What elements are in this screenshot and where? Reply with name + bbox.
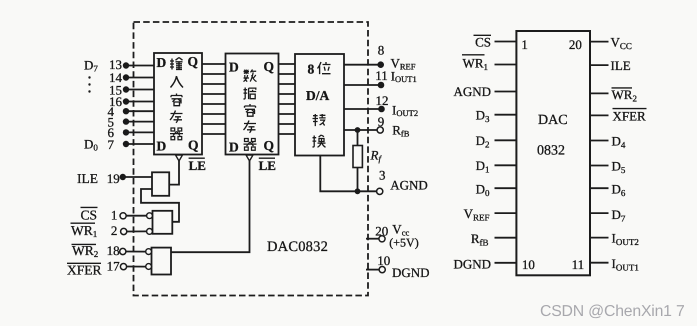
svg-text:D2: D2	[476, 133, 490, 150]
VREF node dot	[377, 61, 384, 68]
svg-text:RfB: RfB	[392, 122, 410, 138]
left pin labels	[453, 35, 491, 272]
left pin stubs	[495, 42, 517, 263]
svg-text:ILE: ILE	[611, 58, 631, 73]
input wires D7..D0 into U1	[126, 66, 154, 145]
svg-text:20: 20	[569, 37, 582, 52]
U1 pin labels D/Q	[157, 54, 199, 154]
WR2 wire	[126, 251, 146, 253]
svg-text:D/A: D/A	[306, 88, 330, 103]
svg-text:Q: Q	[188, 138, 199, 153]
LE2 label with overbar	[259, 158, 276, 173]
overbar CS	[474, 34, 492, 36]
svg-text:D0: D0	[84, 137, 98, 153]
svg-text:IOUT2: IOUT2	[612, 231, 639, 248]
IOUT1 node dot	[378, 82, 385, 89]
input register block U1	[154, 53, 202, 155]
svg-text:(+5V): (+5V)	[389, 235, 418, 249]
bus wires U1->U2	[202, 64, 226, 134]
LE1 label with overbar	[189, 158, 206, 173]
WR1 wire	[127, 230, 147, 232]
overbar XFER	[613, 108, 647, 110]
svg-text:1: 1	[521, 37, 528, 52]
WR1 label with overbar	[71, 223, 98, 239]
svg-text:3: 3	[379, 168, 386, 183]
svg-text:12: 12	[376, 93, 389, 108]
input node dots	[123, 62, 129, 147]
ellipsis dots under D7	[88, 76, 90, 92]
svg-text:D0: D0	[476, 181, 490, 198]
svg-text:D: D	[157, 55, 167, 70]
wire U2 LE down to gate G3 output	[171, 161, 250, 252]
U1 clock wedge	[176, 155, 183, 161]
svg-text:D: D	[229, 60, 239, 75]
overbar WR2	[612, 87, 633, 89]
svg-text:9: 9	[378, 114, 385, 129]
AGND terminal circle	[377, 188, 383, 194]
svg-text:D: D	[157, 139, 167, 154]
input pin numbers 13,14,15,16,4,5,6,7	[108, 57, 123, 152]
U2 pin labels D/Q	[229, 59, 274, 154]
CS wire	[126, 215, 146, 217]
svg-text:WR2: WR2	[612, 87, 637, 104]
dashed enclosure DAC0832	[134, 22, 369, 296]
svg-text:11: 11	[375, 68, 388, 83]
svg-text:WR2: WR2	[72, 243, 98, 259]
svg-text:ILE: ILE	[77, 171, 98, 186]
G3 input bubbles	[146, 249, 152, 255]
svg-text:AGND: AGND	[390, 177, 428, 192]
svg-text:WR1: WR1	[463, 56, 488, 73]
svg-text:VCC: VCC	[611, 35, 632, 52]
svg-text:D3: D3	[476, 107, 490, 124]
right pin labels	[611, 35, 647, 273]
WR2 label with overbar	[72, 243, 99, 259]
VREF wire	[344, 64, 381, 66]
IOUT1 wire	[344, 84, 381, 86]
svg-text:Q: Q	[264, 59, 275, 74]
VCC wire	[366, 238, 379, 240]
svg-text:IOUT1: IOUT1	[612, 256, 639, 273]
bus wires U2->U3	[279, 64, 296, 134]
svg-text:IOUT2: IOUT2	[392, 103, 418, 119]
WR1 input circle	[121, 228, 127, 234]
svg-text:8: 8	[378, 43, 385, 58]
XFER wire	[127, 266, 146, 268]
svg-text:8: 8	[308, 62, 315, 77]
svg-text:DGND: DGND	[392, 265, 430, 280]
overbar WR1	[462, 54, 485, 56]
DGND wire	[366, 269, 379, 271]
svg-text:D4: D4	[612, 134, 626, 151]
input data pin labels D7..D0	[84, 58, 98, 153]
svg-text:7: 7	[108, 137, 115, 152]
svg-text:Q: Q	[188, 54, 199, 69]
ILE node dot	[120, 174, 126, 180]
right pin stubs	[590, 42, 609, 263]
svg-text:LE: LE	[189, 158, 206, 173]
G2 input bubbles	[147, 213, 153, 219]
svg-text:D7: D7	[612, 207, 626, 224]
U2 clock wedge	[246, 155, 253, 161]
svg-text:WR1: WR1	[71, 223, 97, 239]
ILE wire	[123, 176, 152, 178]
svg-text:D5: D5	[612, 159, 626, 176]
U1 vertical label 输入寄存器	[170, 58, 183, 70]
svg-text:AGND: AGND	[453, 84, 491, 99]
DGND terminal circle	[379, 267, 385, 273]
WR2 input circle	[120, 248, 126, 254]
wire U1 LE to gate G1 output	[169, 161, 179, 185]
svg-text:D: D	[229, 139, 239, 154]
gate G3	[152, 248, 172, 275]
RFB terminal circle	[377, 127, 383, 133]
svg-text:D6: D6	[612, 181, 626, 198]
gate G2	[153, 211, 173, 234]
svg-text:XFER: XFER	[613, 108, 647, 123]
svg-text:Q: Q	[264, 138, 275, 153]
svg-text:CS: CS	[81, 208, 98, 223]
resistor Rf	[353, 130, 362, 191]
junction dot RFB/Rf	[355, 127, 361, 133]
svg-text:0832: 0832	[537, 144, 565, 159]
svg-text:18: 18	[107, 243, 120, 258]
svg-text:RfB: RfB	[471, 231, 489, 248]
CS input circle	[120, 213, 126, 219]
svg-text:D7: D7	[84, 58, 98, 74]
svg-text:XFER: XFER	[67, 262, 102, 277]
svg-text:1: 1	[111, 208, 118, 223]
XFER input circle	[120, 264, 126, 270]
svg-text:10: 10	[377, 253, 390, 268]
svg-text:DAC: DAC	[538, 113, 568, 128]
svg-text:10: 10	[522, 257, 535, 272]
RFB wire	[344, 129, 377, 131]
svg-text:20: 20	[375, 223, 388, 238]
VCC terminal circle	[379, 236, 385, 242]
svg-text:D1: D1	[476, 158, 490, 175]
svg-text:CSDN @ChenXin1 7: CSDN @ChenXin1 7	[540, 303, 685, 320]
svg-text:17: 17	[107, 259, 121, 274]
svg-text:DAC0832: DAC0832	[267, 239, 328, 255]
svg-text:CS: CS	[475, 35, 491, 50]
svg-text:2: 2	[111, 223, 118, 238]
AGND wire from U3 bottom	[320, 156, 376, 192]
XFER label with overbar	[67, 262, 102, 277]
svg-text:19: 19	[107, 171, 120, 186]
svg-text:DGND: DGND	[453, 256, 491, 271]
U2 vertical label 数据寄存器	[244, 70, 257, 82]
wire G2 output to G1 lower input	[141, 189, 179, 222]
svg-text:11: 11	[572, 257, 585, 272]
gate G1	[152, 172, 169, 196]
svg-text:VREF: VREF	[464, 206, 490, 223]
svg-text:LE: LE	[259, 158, 276, 173]
svg-text:Rf: Rf	[370, 148, 383, 164]
data register block U2	[226, 54, 279, 155]
DIP body DAC0832	[516, 31, 590, 275]
8-bit D/A converter block U3	[295, 54, 344, 156]
junction dot Rf/AGND	[355, 188, 361, 194]
CS label with overbar	[81, 207, 98, 222]
IOUT2 node dot	[378, 106, 385, 113]
IOUT2 wire	[344, 108, 382, 110]
